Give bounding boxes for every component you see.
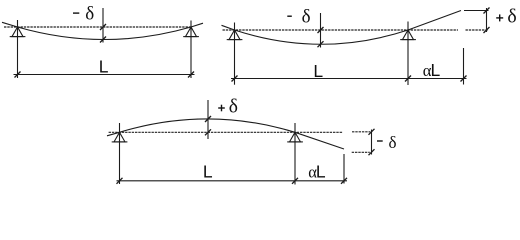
deflected beam curve with drooping overhang <box>107 119 344 149</box>
right support base line <box>183 36 199 38</box>
slash tick dim left <box>117 178 123 184</box>
right support base line <box>287 141 303 143</box>
slash tick dim left <box>15 72 21 78</box>
label +delta diagram 3: plus strokes <box>218 107 225 108</box>
left support base line <box>227 39 243 41</box>
delta dimension vertical midspan <box>320 13 322 48</box>
left support base line <box>10 36 26 38</box>
left support triangle <box>114 132 125 142</box>
right support triangle <box>290 132 301 142</box>
svg-text:L: L <box>313 61 323 81</box>
left support base line <box>112 141 128 143</box>
slash tick dim middle <box>292 178 298 184</box>
label +delta diagram 2: plus strokes <box>496 17 503 18</box>
bottom dimension line L <box>14 74 195 76</box>
svg-text:δ: δ <box>229 97 238 118</box>
svg-text:δ: δ <box>507 6 516 28</box>
right support base line <box>400 39 416 41</box>
overhang end extension line <box>463 48 465 85</box>
left support triangle <box>229 30 240 40</box>
right support triangle <box>403 30 414 40</box>
label -delta diagram 2: minus stroke <box>287 16 292 17</box>
right support extension line <box>294 123 296 185</box>
slash tick dim left <box>232 76 238 82</box>
left extension line <box>17 20 19 78</box>
slash tick at reference level <box>484 27 490 33</box>
label -delta diagram 3: minus stroke <box>377 140 383 141</box>
slash tick at reference <box>100 24 106 30</box>
tip level line <box>464 10 489 12</box>
slash tick at reference level <box>369 129 375 135</box>
bottom dimension line <box>231 78 467 80</box>
slash tick dim right <box>188 72 194 78</box>
slash tick at tip level <box>484 8 490 14</box>
-delta dimension vertical <box>371 130 373 155</box>
slash tick at reference <box>205 129 211 135</box>
svg-text:δ: δ <box>85 3 94 24</box>
svg-text:L: L <box>431 60 441 80</box>
right extension line <box>190 21 192 79</box>
left extension line <box>119 123 121 184</box>
left extension line <box>234 23 236 85</box>
svg-text:L: L <box>203 161 213 181</box>
slash tick dim right <box>461 76 467 82</box>
right support triangle <box>186 27 197 37</box>
svg-text:δ: δ <box>389 133 397 152</box>
reference line (dotted, undeflected beam) <box>4 26 191 28</box>
svg-text:L: L <box>99 57 109 77</box>
deflected beam curve <box>2 22 203 39</box>
slash tick at curve peak <box>205 116 211 122</box>
delta dimension vertical midspan <box>207 100 209 139</box>
reference line (dotted) <box>223 29 459 31</box>
overhang end extension line <box>343 154 345 184</box>
tip level dashed line <box>352 151 370 153</box>
slash tick at curve <box>100 37 106 43</box>
slash tick at curve <box>318 41 324 47</box>
left support triangle <box>12 27 23 37</box>
reference line (dotted) <box>109 131 343 133</box>
label -delta diagram 1: minus stroke <box>73 12 79 13</box>
+delta dimension vertical <box>486 8 488 32</box>
bottom dimension line <box>117 180 348 182</box>
reference dash near +delta dim <box>466 29 489 31</box>
right support extension line <box>407 22 409 86</box>
slash tick at reference <box>318 27 324 33</box>
svg-text:L: L <box>316 161 326 181</box>
deflected beam curve with straight overhang <box>222 11 462 45</box>
svg-text:δ: δ <box>302 7 311 28</box>
slash tick dim middle <box>405 76 411 82</box>
reference dash near -delta dim <box>352 131 370 133</box>
delta dimension vertical <box>102 8 104 43</box>
slash tick at tip level <box>369 149 375 155</box>
slash tick dim right <box>341 178 347 184</box>
